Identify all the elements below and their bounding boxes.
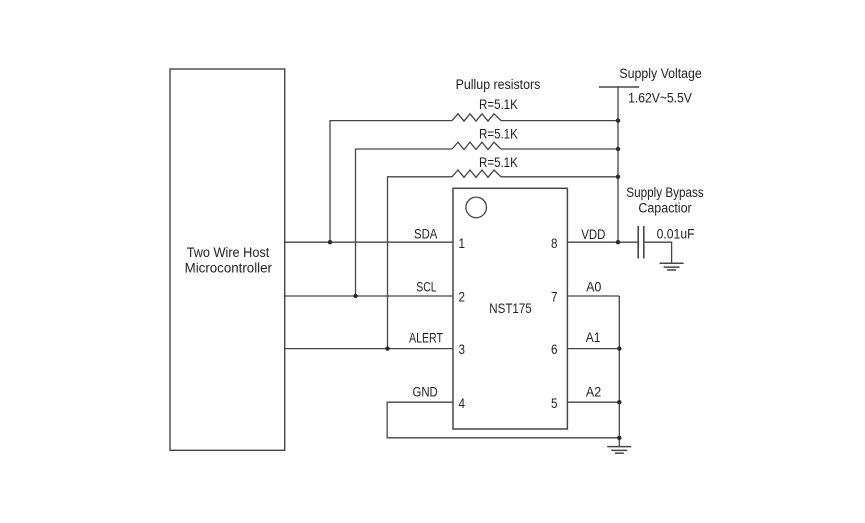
- svg-text:A1: A1: [586, 330, 601, 345]
- svg-text:Pullup resistors: Pullup resistors: [456, 77, 541, 92]
- wire pullup 3 vertical drop to ALERT: [388, 177, 453, 349]
- wire SCL: MCU to pin 2: [285, 295, 453, 297]
- wire A0: pin 7 to address bus: [567, 295, 619, 297]
- supply voltage bar: [599, 86, 639, 88]
- junction dot pullup2/supply rail: [616, 147, 620, 151]
- resistor R=5.1K pullup 2 zigzag: [452, 142, 501, 149]
- svg-text:2: 2: [458, 290, 465, 305]
- junction dot A2/bus: [617, 400, 621, 404]
- svg-text:A0: A0: [586, 279, 601, 294]
- wire pullup 1 vertical drop to SDA: [330, 121, 452, 243]
- wire capacitor to ground: [644, 242, 672, 263]
- IC pin-1 indicator circle: [466, 197, 487, 218]
- junction dot GND loop/bus: [617, 436, 621, 440]
- wire SDA: MCU to pin 1: [285, 241, 453, 243]
- wire GND: pin 4 loop to ground bus: [387, 402, 619, 438]
- ground symbol at capacitor: [660, 263, 684, 270]
- wire pullup 2 to supply rail: [501, 148, 618, 150]
- wire A2: pin 5 to address bus: [567, 401, 619, 403]
- svg-text:4: 4: [458, 396, 465, 411]
- wire pullup 3 to supply rail: [501, 176, 618, 178]
- ground symbol at address bus: [607, 447, 631, 454]
- svg-text:1.62V~5.5V: 1.62V~5.5V: [628, 90, 692, 105]
- svg-text:Supply Bypass: Supply Bypass: [626, 185, 704, 200]
- wire ALERT: MCU to pin 3: [285, 348, 453, 350]
- svg-text:R=5.1K: R=5.1K: [479, 97, 518, 112]
- svg-text:0.01uF: 0.01uF: [657, 226, 695, 241]
- op IC U1 NST175 body: [453, 188, 567, 429]
- junction dot SCL/pullup2: [353, 294, 357, 298]
- svg-text:7: 7: [551, 290, 558, 305]
- wire address bus vertical to ground: [618, 296, 620, 447]
- label Supply Bypass Capactior: [626, 185, 704, 216]
- wire pullup 1 to supply rail: [501, 120, 618, 122]
- svg-text:VDD: VDD: [581, 227, 605, 242]
- svg-text:Supply Voltage: Supply Voltage: [619, 66, 701, 81]
- svg-text:SCL: SCL: [416, 280, 436, 295]
- svg-text:Capactior: Capactior: [638, 201, 692, 216]
- wire pullup 2 vertical drop to SCL: [356, 149, 453, 296]
- wire VDD: pin 8 to capacitor: [567, 241, 638, 243]
- junction dot SDA/pullup1: [328, 240, 332, 244]
- capacitor C1 left plate: [637, 226, 639, 258]
- svg-text:A2: A2: [586, 384, 601, 399]
- svg-text:ALERT: ALERT: [409, 330, 443, 345]
- resistor R=5.1K pullup 3 zigzag: [452, 170, 501, 177]
- svg-text:R=5.1K: R=5.1K: [479, 155, 518, 170]
- junction dot A1/bus: [617, 346, 621, 350]
- svg-text:SDA: SDA: [414, 227, 437, 242]
- svg-text:6: 6: [551, 342, 558, 357]
- svg-text:1: 1: [458, 236, 465, 251]
- supply rail vertical wire: [617, 87, 619, 242]
- junction dot pullup3/supply rail: [616, 175, 620, 179]
- svg-text:5: 5: [551, 396, 558, 411]
- svg-text:3: 3: [458, 342, 465, 357]
- wire A1: pin 6 to address bus: [567, 348, 619, 350]
- svg-text:8: 8: [551, 236, 558, 251]
- svg-text:GND: GND: [413, 385, 438, 400]
- svg-text:R=5.1K: R=5.1K: [479, 126, 518, 141]
- junction dot VDD/supply rail: [616, 240, 620, 244]
- svg-text:Microcontroller: Microcontroller: [185, 260, 273, 275]
- junction dot ALERT/pullup3: [385, 346, 389, 350]
- svg-text:Two Wire Host: Two Wire Host: [187, 245, 270, 260]
- svg-text:NST175: NST175: [489, 301, 531, 316]
- capacitor C1 right plate: [643, 226, 645, 258]
- microcontroller block U2 rectangle: [170, 69, 285, 450]
- junction dot pullup1/supply rail: [616, 118, 620, 122]
- label Two Wire Host Microcontroller: [185, 245, 273, 275]
- resistor R=5.1K pullup 1 zigzag: [452, 114, 501, 121]
